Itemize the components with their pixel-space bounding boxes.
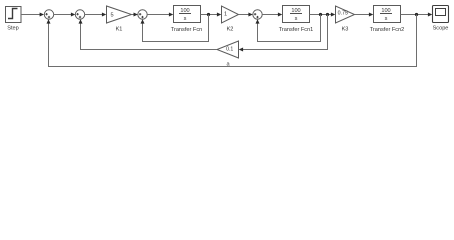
svg-text:1: 1 bbox=[224, 12, 227, 18]
sum block sum4 (before Transfer Fcn1) bbox=[253, 10, 262, 19]
wire Transfer Fcn1 to gain K3 bbox=[310, 13, 336, 17]
wire Transfer Fcn2 to Scope bbox=[401, 13, 433, 17]
block Transfer Fcn (100/s) bbox=[171, 6, 203, 33]
svg-text:K2: K2 bbox=[227, 26, 234, 32]
svg-text:100: 100 bbox=[291, 8, 300, 14]
svg-text:s: s bbox=[295, 16, 298, 22]
junction dot node C (take-off to sum4 loop) bbox=[319, 13, 322, 16]
wire inner loop sum4 feedback (node C down and back) bbox=[256, 15, 321, 42]
svg-text:Transfer Fcn2: Transfer Fcn2 bbox=[370, 27, 405, 33]
svg-text:Scope: Scope bbox=[433, 26, 449, 32]
svg-text:Transfer Fcn: Transfer Fcn bbox=[171, 27, 203, 33]
sum block sum1 (node after Step) bbox=[44, 10, 53, 19]
wire sum1 to sum2 bbox=[54, 13, 76, 17]
svg-text:s: s bbox=[385, 16, 388, 22]
scope block Scope bbox=[433, 6, 449, 32]
step source block Step bbox=[6, 7, 22, 32]
wire Step to sum1 bbox=[21, 13, 44, 17]
wire sum2 to gain K1 bbox=[85, 13, 107, 17]
svg-text:K1: K1 bbox=[116, 26, 123, 32]
svg-text:100: 100 bbox=[180, 8, 189, 14]
wire K2 to sum4 bbox=[239, 13, 253, 17]
block Transfer Fcn2 (100/s) bbox=[370, 6, 405, 33]
svg-text:s: s bbox=[184, 16, 187, 22]
wire Transfer Fcn to gain K2 bbox=[201, 13, 222, 17]
junction dot node E (output take-off to outer loop) bbox=[415, 13, 418, 16]
wire sum3 to Transfer Fcn bbox=[147, 13, 173, 17]
svg-text:0.75: 0.75 bbox=[338, 11, 348, 17]
wire K3 to Transfer Fcn2 bbox=[355, 13, 374, 17]
wire sum4 to Transfer Fcn1 bbox=[262, 13, 282, 17]
wire inner loop sum3 feedback (node B down and back) bbox=[141, 15, 209, 42]
wire node D down to gain a input bbox=[239, 15, 328, 52]
gain K2 (value 1) bbox=[222, 6, 239, 32]
gain K3 (value 0.75) bbox=[336, 6, 355, 32]
sum block sum3 (before Transfer Fcn) bbox=[138, 10, 147, 19]
sum block sum2 (inner-loop summing junction) bbox=[75, 10, 84, 19]
svg-text:100: 100 bbox=[381, 8, 390, 14]
block Transfer Fcn1 (100/s) bbox=[279, 6, 314, 33]
svg-text:Step: Step bbox=[7, 26, 19, 32]
junction dot node D (take-off to gain a) bbox=[326, 13, 329, 16]
gain a (value 0.1, points left) bbox=[217, 41, 239, 68]
gain K1 (value 5) bbox=[107, 6, 132, 32]
wire outer loop (node E down, across, up to sum1) bbox=[47, 15, 417, 67]
wire gain a output to sum2 bbox=[79, 19, 218, 49]
svg-text:Transfer Fcn1: Transfer Fcn1 bbox=[279, 27, 314, 33]
svg-text:5: 5 bbox=[110, 13, 113, 19]
wire K1 to sum3 bbox=[132, 13, 138, 17]
svg-text:0.1: 0.1 bbox=[226, 47, 233, 53]
junction dot node B (take-off after Transfer Fcn) bbox=[207, 13, 210, 16]
svg-text:K3: K3 bbox=[342, 26, 349, 32]
